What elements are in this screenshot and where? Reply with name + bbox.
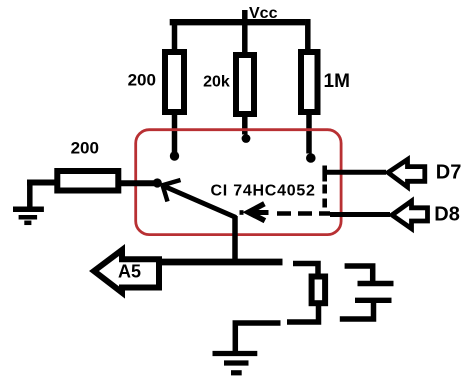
dashed arrow head (to wiper)	[248, 204, 268, 221]
ground (left)	[13, 183, 44, 223]
resistor R2 20k	[236, 55, 254, 114]
resistor R3 1M	[301, 52, 318, 112]
resistor R4	[312, 277, 326, 304]
power Vcc stub	[242, 10, 248, 55]
wire drop to R3	[305, 19, 311, 53]
pin tick D7 (IC right)	[322, 166, 327, 182]
capacitor C1 bottom plate	[355, 298, 392, 303]
ground (bottom)	[213, 354, 258, 373]
IC U1 74HC4052 outline (red box)	[136, 130, 341, 235]
wire ground to R5	[27, 180, 57, 186]
svg-text:1M: 1M	[324, 71, 350, 92]
capacitor C1 top plate	[358, 281, 394, 286]
svg-text:200: 200	[71, 139, 99, 158]
dashed wire D8 (inside IC)	[240, 210, 244, 215]
wire C1 top lead	[345, 266, 373, 281]
wire R3 bottom	[306, 112, 312, 154]
svg-text:20k: 20k	[203, 74, 230, 91]
node dot pin R1	[170, 151, 179, 160]
dashed wire D8	[277, 211, 330, 216]
wire drop to R1	[172, 19, 178, 53]
block arrow D7	[388, 160, 425, 188]
svg-text:D8: D8	[434, 204, 460, 226]
wire Vcc rail	[170, 19, 306, 25]
resistor R1 200	[165, 52, 184, 112]
switch wiper arrow (to node X)	[162, 180, 237, 218]
wire R5 to node X	[121, 180, 155, 186]
node dot pin R2	[242, 134, 251, 143]
wire wiper to A5 line	[232, 216, 238, 262]
wire elbow to R4 top	[293, 264, 318, 276]
wire D7	[325, 170, 386, 175]
svg-text:D7: D7	[436, 162, 462, 184]
block arrow A5	[94, 250, 159, 293]
wire A5 line	[156, 259, 283, 266]
node dot pin R3	[306, 153, 316, 163]
svg-text:200: 200	[128, 70, 156, 89]
svg-text:CI 74HC4052: CI 74HC4052	[211, 183, 316, 200]
wire to bottom ground	[235, 323, 280, 352]
block arrow D8	[392, 201, 428, 229]
wire C1 bottom lead	[340, 303, 374, 319]
dashed wire D7-D8 vertical	[322, 185, 327, 209]
node dot X (common)	[153, 178, 162, 187]
wire R4 bottom elbow	[287, 305, 319, 322]
resistor R5 200 (horizontal)	[57, 171, 118, 191]
svg-text:A5: A5	[118, 262, 141, 282]
wire R1 bottom	[172, 112, 178, 153]
wire R2 bottom	[242, 114, 248, 135]
wire D8 solid	[330, 212, 390, 217]
